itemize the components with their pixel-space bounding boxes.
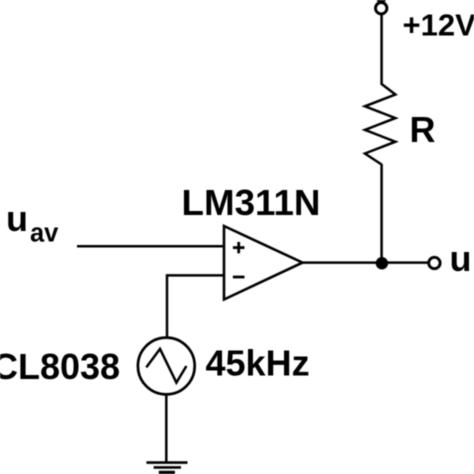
oscillator source ICL8038 [138,338,195,395]
svg-text:av: av [30,219,59,247]
resistor R [365,84,396,165]
output terminal circle [429,257,440,268]
svg-text:CL8038: CL8038 [0,346,120,387]
node junction dot [376,257,388,269]
wire op-amp output to node [301,261,382,264]
wire top terminal to resistor [380,15,383,85]
svg-text:R: R [410,109,436,150]
op-amp U1 comparator [224,226,303,300]
svg-text:u: u [6,198,28,239]
triangle wave symbol [146,349,186,383]
wire oscillator to minus input [167,274,224,277]
svg-text:45kHz: 45kHz [206,343,310,384]
minus input marking [233,276,245,279]
svg-text:LM311N: LM311N [182,182,321,223]
svg-text:u: u [450,238,472,279]
wire stub clipped at top edge [377,0,386,2]
svg-text:+12V: +12V [403,8,474,43]
ground [146,463,187,473]
wire oscillator to ground [165,395,168,462]
terminal +12V supply [376,3,387,14]
wire resistor to node [380,164,383,262]
wire u_av to plus input [77,245,224,248]
wire vertical to oscillator [166,274,169,338]
plus input marking [233,242,245,253]
wire node to output terminal [382,261,428,264]
